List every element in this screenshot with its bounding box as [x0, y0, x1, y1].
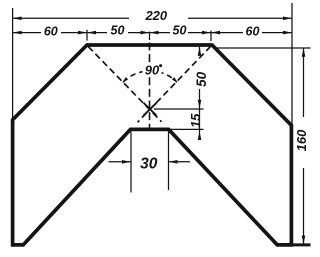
extension line at centre level: [154, 108, 204, 110]
dim 30 right arrow: [169, 161, 191, 163]
dashed 90 degree arc: [123, 71, 177, 82]
dashed diagonal from left top corner: [88, 47, 161, 122]
svg-text:60: 60: [246, 24, 260, 38]
degree dot: [159, 64, 162, 67]
svg-text:60: 60: [44, 25, 58, 39]
svg-text:50: 50: [194, 71, 209, 87]
dim 30 extension left: [130, 132, 132, 193]
svg-text:220: 220: [144, 8, 167, 23]
tick at x=211: [210, 31, 212, 42]
svg-text:15: 15: [188, 113, 203, 128]
dashed diagonal from right top corner: [138, 46, 211, 122]
svg-text:50: 50: [173, 23, 187, 37]
top extension line for 160: [215, 47, 311, 49]
outline of plate: [13, 45, 292, 245]
tick at x=87: [86, 30, 88, 41]
dim line 220: [13, 17, 129, 19]
vertical dim line 50/15: [199, 47, 201, 55]
tick at x=149.5: [149, 32, 151, 41]
svg-text:50: 50: [111, 24, 125, 38]
dim line 160: [303, 48, 305, 117]
extension line at notch top level: [170, 128, 204, 130]
center point cross: [144, 103, 157, 116]
svg-text:30: 30: [140, 155, 158, 172]
bottom right baseline extension: [291, 243, 310, 246]
centerline dashed: [149, 43, 151, 128]
svg-text:160: 160: [294, 129, 309, 151]
dim line 60/50/50/60: [13, 32, 41, 34]
dim 30 extension right: [168, 132, 170, 191]
svg-text:90: 90: [145, 63, 160, 78]
halo behind 90 label: [143, 64, 162, 77]
left extension line: [12, 8, 14, 118]
dim 30 left arrow: [109, 161, 132, 163]
right extension line: [291, 3, 293, 124]
